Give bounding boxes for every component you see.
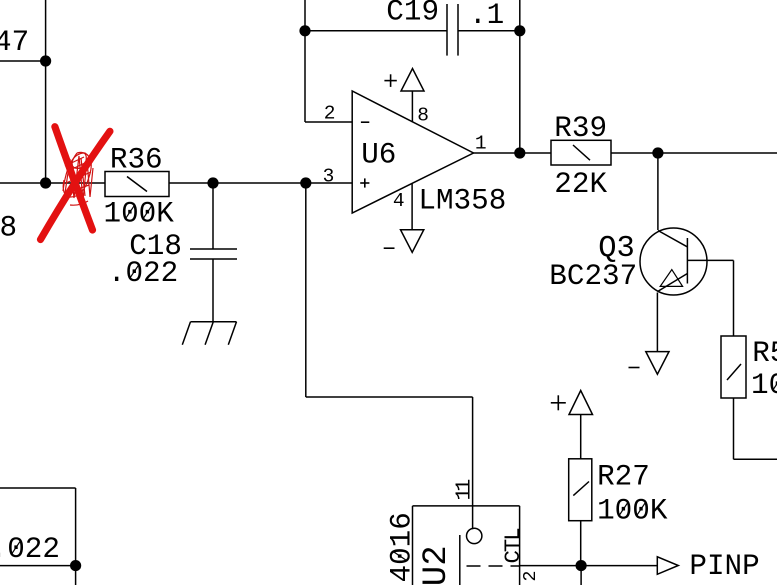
annotation red scribble over R36 input bbox=[63, 152, 93, 205]
node junction C19 left bbox=[299, 25, 310, 36]
IC U2 part number 4016 bbox=[386, 512, 419, 582]
svg-text:8: 8 bbox=[417, 105, 429, 127]
wire op-amp output to R39 bbox=[474, 152, 552, 154]
resistor R27 value 100K bbox=[597, 495, 668, 528]
power V- arrow below U6 bbox=[401, 230, 424, 253]
resistor R52 value 100K (clipped) bbox=[751, 369, 777, 402]
wire pin 4 to V- bbox=[411, 183, 413, 230]
node junction R27 / PINP bbox=[576, 560, 587, 571]
net label PINP bbox=[689, 550, 759, 583]
node junction pin3 feedback tap bbox=[300, 177, 311, 188]
wire Q3 collector bbox=[657, 153, 659, 230]
annotation red X stroke 1 bbox=[55, 127, 93, 230]
wire C18 top lead bbox=[212, 183, 214, 249]
capacitor C18 top plate bbox=[190, 248, 237, 250]
wire bottom-left vertical bbox=[75, 488, 77, 566]
svg-text:47: 47 bbox=[0, 26, 29, 59]
transistor Q3 designator bbox=[598, 232, 635, 266]
pin name CTL bbox=[500, 528, 526, 564]
power V+ plus sign above R27 bbox=[551, 395, 566, 410]
resistor R27 body bbox=[569, 459, 592, 521]
wire 4016 to PINP arrow bbox=[520, 565, 658, 567]
wire R52 bottom lead bbox=[733, 398, 735, 459]
IC U2 internal control dashed line bbox=[467, 565, 520, 567]
wire Q3 emitter lead bbox=[656, 293, 658, 352]
op-amp U6 part number LM358 bbox=[418, 185, 506, 218]
svg-text:4: 4 bbox=[393, 190, 405, 212]
IC U2 designator bbox=[418, 545, 456, 585]
power V- minus sign at Q3 emitter bbox=[629, 367, 640, 369]
node junction left upper bbox=[40, 55, 51, 66]
svg-text:2: 2 bbox=[521, 571, 541, 582]
node junction Q3 collector tap bbox=[652, 147, 663, 158]
svg-text:.022: .022 bbox=[108, 257, 178, 290]
wire bottom-left top segment bbox=[0, 487, 76, 489]
svg-text:CTL: CTL bbox=[500, 528, 526, 564]
capacitor C19 bbox=[447, 4, 458, 56]
wire C18 bottom lead bbox=[212, 259, 214, 321]
transistor Q3 part number BC237 bbox=[549, 260, 637, 293]
node junction C19 right bbox=[514, 25, 525, 36]
resistor R39 value 22K bbox=[554, 168, 607, 201]
wire C19 left vertical from top edge bbox=[304, 0, 306, 122]
wire C19 right horizontal bbox=[458, 30, 520, 32]
transistor Q3 body circle bbox=[640, 228, 707, 295]
svg-text:PINP: PINP bbox=[689, 550, 759, 583]
capacitor C19 value .1 bbox=[469, 0, 504, 32]
wire Q3 base bbox=[687, 259, 733, 261]
node junction bottom-left bbox=[70, 560, 81, 571]
IC U2 4016 box bbox=[413, 506, 520, 585]
capacitor value .022 (clipped) bbox=[0, 533, 60, 566]
transistor Q3 collector slant bbox=[658, 231, 687, 247]
svg-text:3: 3 bbox=[323, 165, 335, 187]
wire input net left segment bbox=[0, 182, 105, 184]
wire feedback from pin3 node down bbox=[305, 183, 307, 397]
node junction C18 tap bbox=[207, 177, 218, 188]
resistor R39 body bbox=[551, 140, 611, 165]
resistor R39 label bbox=[554, 112, 607, 145]
connector PINP arrow bbox=[657, 557, 678, 575]
net label 8 (clipped) bbox=[0, 212, 17, 245]
wire V+ to R27 bbox=[580, 415, 582, 459]
capacitor C19 label bbox=[386, 0, 439, 28]
pin number 1 bbox=[475, 133, 487, 155]
power V+ arrow above U6 bbox=[401, 69, 424, 92]
annotation red X stroke 2 bbox=[41, 131, 110, 239]
wire base to R52 bbox=[733, 260, 735, 336]
node junction left at input net bbox=[40, 177, 51, 188]
capacitor C18 value .022 bbox=[108, 257, 178, 290]
svg-text:C19: C19 bbox=[386, 0, 439, 28]
svg-text:11: 11 bbox=[453, 480, 477, 501]
IC U2 internal switch line bbox=[459, 535, 461, 585]
pin number 2 (4016 CTL) bbox=[521, 571, 541, 582]
svg-text:100K: 100K bbox=[104, 198, 175, 231]
wire R36 to pin3 net bbox=[169, 182, 352, 184]
pin number 11 bbox=[453, 480, 477, 501]
wire feedback down to pin 11 bbox=[472, 397, 474, 529]
svg-text:U2: U2 bbox=[418, 545, 456, 585]
svg-text:.022: .022 bbox=[0, 533, 60, 566]
pin number 3 bbox=[323, 165, 335, 187]
wire R52 to right edge bbox=[734, 458, 777, 460]
op-amp U6 triangle bbox=[352, 91, 473, 213]
transistor Q3 base bar bbox=[686, 238, 688, 284]
svg-text:BC237: BC237 bbox=[549, 260, 637, 293]
pin number 2 bbox=[324, 102, 336, 124]
resistor R36 diagonal bbox=[127, 177, 147, 192]
capacitor C18 label bbox=[129, 230, 182, 263]
svg-text:22K: 22K bbox=[554, 168, 607, 201]
op-amp U6 designator bbox=[361, 138, 396, 171]
transistor Q3 emitter arrow (PNP) bbox=[660, 270, 682, 287]
svg-text:R36: R36 bbox=[110, 143, 163, 176]
pin number 4 bbox=[393, 190, 405, 212]
resistor R27 label bbox=[597, 461, 650, 494]
svg-text:100K: 100K bbox=[751, 369, 777, 402]
svg-text:8: 8 bbox=[0, 212, 17, 245]
power V+ plus sign above U6 bbox=[384, 74, 396, 87]
resistor R52 label (clipped) bbox=[752, 337, 777, 370]
wire feedback horizontal bbox=[306, 396, 473, 398]
wire pin 8 to V+ bbox=[411, 91, 413, 122]
value label 47 (clipped) bbox=[0, 26, 29, 59]
power V+ arrow above R27 bbox=[569, 391, 593, 415]
op-amp U6 plus mark pin3 bbox=[360, 178, 369, 187]
svg-text:.1: .1 bbox=[469, 0, 504, 32]
transistor Q3 emitter slant bbox=[658, 274, 688, 292]
resistor R36 value 100K bbox=[104, 198, 175, 231]
wire bottom-left horizontal bbox=[0, 565, 76, 567]
node junction op-amp output bbox=[514, 147, 525, 158]
svg-text:2: 2 bbox=[324, 102, 336, 124]
IC U2 pin 11 inversion bubble bbox=[467, 528, 482, 543]
wire inverting input pin 2 bbox=[305, 121, 352, 123]
wire output net vertical bbox=[519, 0, 521, 153]
resistor R36 label bbox=[110, 143, 163, 176]
wire R27 to PINP net bbox=[580, 521, 582, 566]
svg-text:U6: U6 bbox=[361, 138, 396, 171]
svg-text:R27: R27 bbox=[597, 461, 650, 494]
svg-text:100K: 100K bbox=[597, 495, 668, 528]
wire bottom-left below junction bbox=[75, 566, 77, 585]
svg-text:1: 1 bbox=[475, 133, 487, 155]
svg-text:4016: 4016 bbox=[386, 512, 419, 582]
ground symbol below C18 bbox=[182, 322, 236, 345]
power V- minus sign below U6 bbox=[384, 247, 395, 249]
resistor R52 diagonal bbox=[727, 364, 741, 380]
svg-text:R52: R52 bbox=[752, 337, 777, 370]
wire horizontal to left net bbox=[0, 60, 46, 62]
resistor R52 body bbox=[721, 336, 746, 398]
resistor R36 body bbox=[105, 172, 169, 197]
resistor R39 diagonal bbox=[573, 145, 590, 160]
wire PINP net below junction bbox=[580, 566, 582, 585]
power V- arrow at Q3 emitter bbox=[646, 352, 669, 375]
op-amp U6 minus mark pin2 bbox=[361, 121, 369, 123]
svg-text:LM358: LM358 bbox=[418, 185, 506, 218]
svg-text:R39: R39 bbox=[554, 112, 607, 145]
capacitor C18 bottom plate bbox=[190, 258, 237, 260]
wire vertical left net bbox=[45, 0, 47, 183]
wire R39 to right edge bbox=[611, 152, 777, 154]
pin number 8 bbox=[417, 105, 429, 127]
wire C19 left horizontal bbox=[305, 30, 447, 32]
resistor R27 diagonal bbox=[573, 482, 589, 496]
